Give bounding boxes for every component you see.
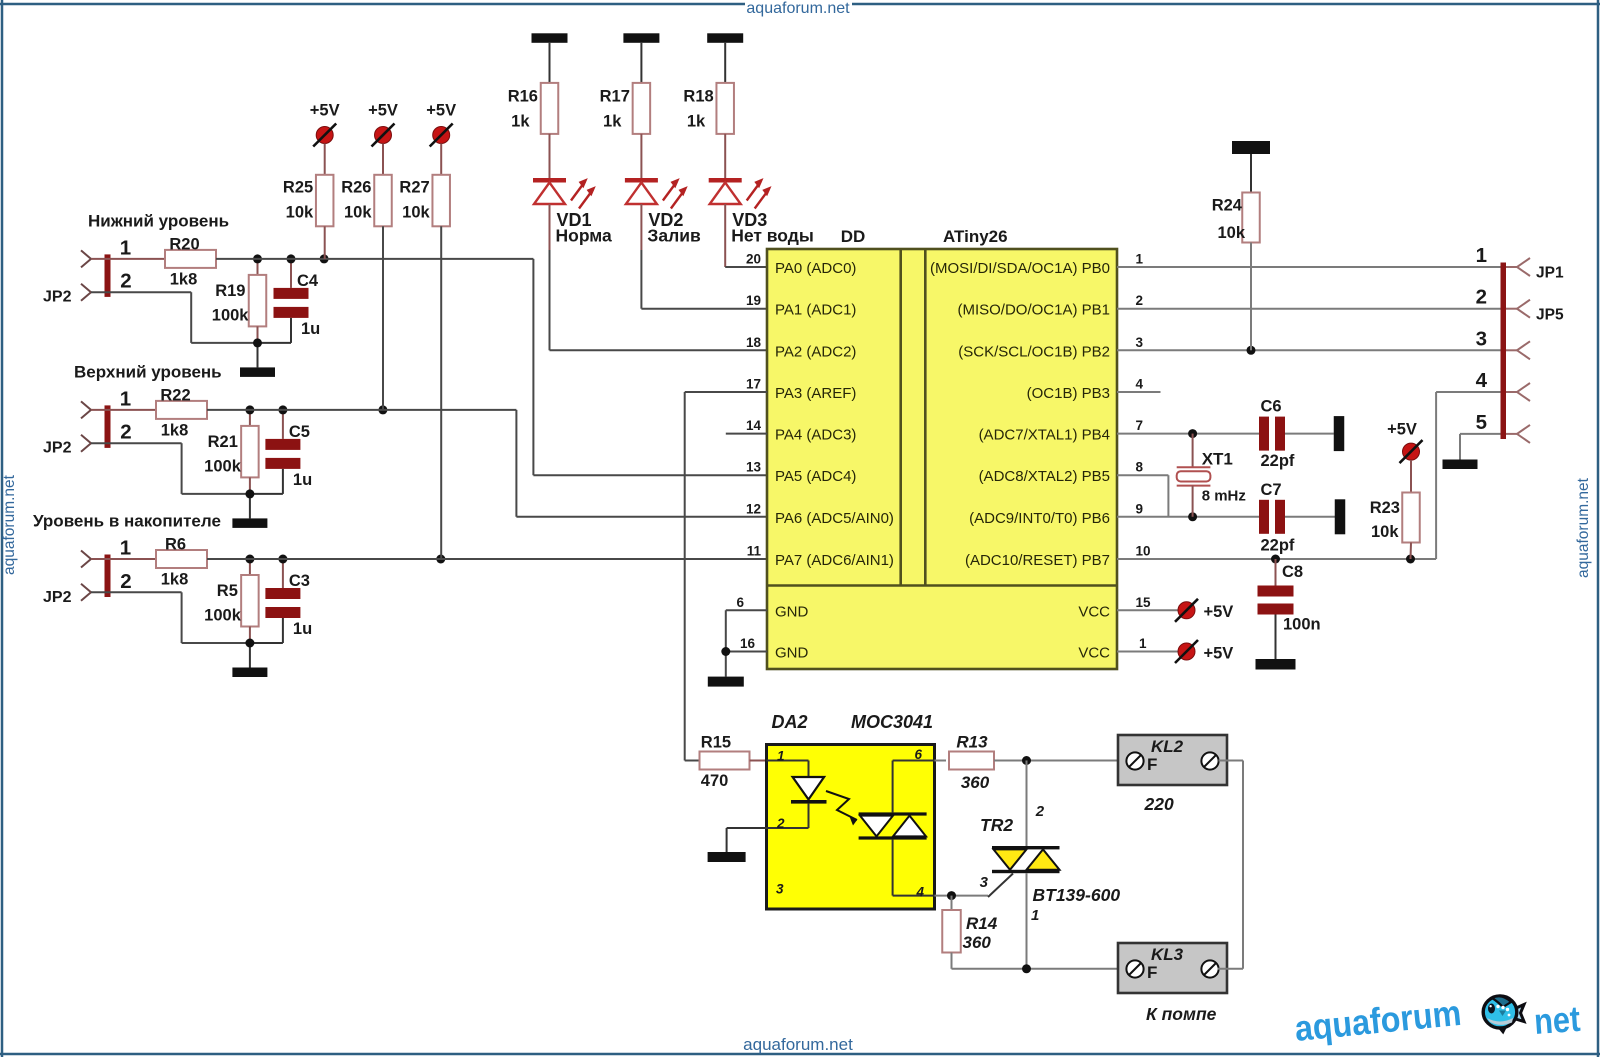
svg-text:22pf: 22pf <box>1261 537 1295 555</box>
svg-text:KL2: KL2 <box>1151 737 1184 756</box>
svg-text:VCC: VCC <box>1078 645 1110 662</box>
svg-text:PA7 (ADC6/AIN1): PA7 (ADC6/AIN1) <box>775 552 894 569</box>
svg-text:R13: R13 <box>956 733 988 752</box>
svg-text:R24: R24 <box>1212 197 1243 215</box>
svg-text:17: 17 <box>746 377 761 392</box>
svg-text:100n: 100n <box>1283 616 1321 634</box>
svg-text:7: 7 <box>1136 418 1144 433</box>
svg-text:11: 11 <box>747 544 762 559</box>
svg-text:aquaforum.net: aquaforum.net <box>1575 477 1592 578</box>
svg-text:TR2: TR2 <box>980 815 1013 835</box>
svg-text:1: 1 <box>1031 907 1039 924</box>
svg-text:100k: 100k <box>204 607 242 625</box>
svg-text:PA4 (ADC3): PA4 (ADC3) <box>775 427 856 444</box>
svg-text:F: F <box>1147 963 1157 982</box>
svg-text:F: F <box>1147 755 1157 774</box>
svg-text:2: 2 <box>120 570 131 593</box>
svg-text:10k: 10k <box>286 204 314 222</box>
svg-text:PA5 (ADC4): PA5 (ADC4) <box>775 468 856 485</box>
svg-text:XT1: XT1 <box>1202 450 1233 469</box>
svg-text:+5V: +5V <box>368 102 398 120</box>
svg-text:(ADC10/RESET) PB7: (ADC10/RESET) PB7 <box>965 552 1110 569</box>
svg-text:1: 1 <box>777 749 785 764</box>
svg-text:9: 9 <box>1136 501 1144 516</box>
svg-text:1k: 1k <box>687 113 706 131</box>
svg-text:JP2: JP2 <box>43 440 72 457</box>
svg-text:R21: R21 <box>208 433 238 451</box>
svg-text:PA2 (ADC2): PA2 (ADC2) <box>775 343 856 360</box>
svg-text:(SCK/SCL/OC1B) PB2: (SCK/SCL/OC1B) PB2 <box>958 343 1110 360</box>
svg-text:16: 16 <box>740 636 756 651</box>
svg-text:3: 3 <box>980 874 989 891</box>
svg-text:1k8: 1k8 <box>170 270 198 288</box>
svg-text:1k: 1k <box>603 113 622 131</box>
svg-text:100k: 100k <box>204 457 242 475</box>
svg-text:R26: R26 <box>341 179 371 197</box>
svg-text:(ADC9/INT0/T0) PB6: (ADC9/INT0/T0) PB6 <box>969 510 1110 527</box>
svg-text:R6: R6 <box>165 536 186 554</box>
svg-text:12: 12 <box>746 501 761 516</box>
svg-text:PA6 (ADC5/AIN0): PA6 (ADC5/AIN0) <box>775 510 894 527</box>
svg-text:JP2: JP2 <box>43 289 72 306</box>
svg-text:Нижний уровень: Нижний уровень <box>88 211 229 230</box>
svg-text:18: 18 <box>746 335 762 350</box>
svg-text:К помпе: К помпе <box>1146 1004 1217 1024</box>
svg-text:22pf: 22pf <box>1261 452 1295 470</box>
svg-text:aquaforum.net: aquaforum.net <box>743 1035 853 1054</box>
svg-text:2: 2 <box>120 421 131 444</box>
svg-text:14: 14 <box>746 418 762 433</box>
svg-text:1: 1 <box>1136 252 1144 267</box>
svg-text:470: 470 <box>701 772 729 790</box>
svg-text:10k: 10k <box>1217 224 1245 242</box>
svg-text:ATiny26: ATiny26 <box>943 227 1008 246</box>
svg-text:1: 1 <box>120 387 131 410</box>
svg-text:1u: 1u <box>301 320 320 338</box>
svg-text:(OC1B) PB3: (OC1B) PB3 <box>1027 385 1110 402</box>
svg-text:4: 4 <box>915 885 924 900</box>
svg-text:2: 2 <box>776 816 785 831</box>
svg-text:1: 1 <box>120 537 131 560</box>
svg-text:PA1 (ADC1): PA1 (ADC1) <box>775 302 856 319</box>
svg-text:R23: R23 <box>1370 499 1400 517</box>
svg-text:JP2: JP2 <box>43 589 72 606</box>
svg-text:VCC: VCC <box>1078 603 1110 620</box>
svg-text:8 mHz: 8 mHz <box>1202 488 1246 505</box>
svg-text:R25: R25 <box>283 179 313 197</box>
svg-text:+5V: +5V <box>426 102 456 120</box>
svg-text:2: 2 <box>1476 286 1487 309</box>
svg-text:3: 3 <box>1476 327 1487 350</box>
svg-text:10: 10 <box>1136 544 1151 559</box>
svg-text:1k8: 1k8 <box>161 421 189 439</box>
svg-text:15: 15 <box>1136 595 1152 610</box>
svg-text:JP1: JP1 <box>1536 265 1564 282</box>
svg-text:100k: 100k <box>212 306 250 324</box>
svg-text:20: 20 <box>746 252 761 267</box>
svg-text:1: 1 <box>1476 244 1487 267</box>
svg-text:Уровень в накопителе: Уровень в накопителе <box>33 512 221 531</box>
svg-text:R16: R16 <box>508 88 538 106</box>
svg-text:4: 4 <box>1136 377 1144 392</box>
svg-text:GND: GND <box>775 603 809 620</box>
svg-text:C8: C8 <box>1282 563 1303 581</box>
svg-text:+5V: +5V <box>310 102 340 120</box>
svg-text:(MOSI/DI/SDA/OC1A) PB0: (MOSI/DI/SDA/OC1A) PB0 <box>930 260 1110 277</box>
svg-text:1k8: 1k8 <box>161 571 189 589</box>
svg-text:MOC3041: MOC3041 <box>851 712 933 732</box>
svg-text:C3: C3 <box>289 572 310 590</box>
svg-text:2: 2 <box>1136 293 1144 308</box>
svg-text:aquaforum.net: aquaforum.net <box>746 0 850 17</box>
svg-text:360: 360 <box>961 773 990 792</box>
svg-text:net: net <box>1533 998 1582 1042</box>
svg-text:(ADC7/XTAL1) PB4: (ADC7/XTAL1) PB4 <box>979 427 1110 444</box>
svg-text:JP5: JP5 <box>1536 307 1564 324</box>
svg-text:1u: 1u <box>293 620 312 638</box>
svg-text:4: 4 <box>1476 369 1488 392</box>
svg-text:KL3: KL3 <box>1151 945 1184 964</box>
svg-text:R14: R14 <box>966 914 998 933</box>
svg-text:+5V: +5V <box>1204 644 1234 662</box>
svg-text:3: 3 <box>1136 335 1144 350</box>
svg-text:R20: R20 <box>169 235 199 253</box>
svg-text:C6: C6 <box>1261 398 1282 416</box>
svg-text:PA0 (ADC0): PA0 (ADC0) <box>775 260 856 277</box>
svg-text:R19: R19 <box>215 282 245 300</box>
svg-text:+5V: +5V <box>1204 603 1234 621</box>
svg-text:1: 1 <box>120 236 131 259</box>
svg-text:BT139-600: BT139-600 <box>1033 885 1121 905</box>
svg-text:5: 5 <box>1476 411 1487 434</box>
svg-text:3: 3 <box>776 882 784 897</box>
svg-text:R5: R5 <box>217 582 238 600</box>
svg-text:10k: 10k <box>1371 523 1399 541</box>
svg-text:10k: 10k <box>402 204 430 222</box>
svg-text:8: 8 <box>1136 460 1144 475</box>
svg-text:R18: R18 <box>683 88 713 106</box>
svg-text:R27: R27 <box>399 179 429 197</box>
svg-text:DD: DD <box>841 227 866 246</box>
svg-text:R15: R15 <box>701 734 731 752</box>
svg-text:Нет воды: Нет воды <box>731 226 814 246</box>
svg-text:360: 360 <box>963 933 992 952</box>
svg-text:19: 19 <box>746 293 761 308</box>
svg-text:2: 2 <box>1035 803 1045 820</box>
svg-text:DA2: DA2 <box>772 712 808 732</box>
svg-text:1: 1 <box>1139 636 1147 651</box>
svg-text:Норма: Норма <box>556 226 613 246</box>
svg-text:C5: C5 <box>289 423 310 441</box>
svg-text:+5V: +5V <box>1387 420 1417 438</box>
svg-text:aquaforum.net: aquaforum.net <box>1 474 18 575</box>
svg-text:13: 13 <box>746 460 762 475</box>
svg-text:PA3 (AREF): PA3 (AREF) <box>775 385 856 402</box>
svg-text:6: 6 <box>736 595 744 610</box>
svg-text:GND: GND <box>775 645 809 662</box>
svg-text:1u: 1u <box>293 471 312 489</box>
svg-text:10k: 10k <box>344 204 372 222</box>
svg-text:6: 6 <box>914 747 922 762</box>
svg-text:1k: 1k <box>511 113 530 131</box>
svg-text:Верхний уровень: Верхний уровень <box>74 362 222 381</box>
svg-text:R17: R17 <box>600 88 630 106</box>
svg-text:(MISO/DO/OC1A) PB1: (MISO/DO/OC1A) PB1 <box>957 302 1110 319</box>
svg-text:220: 220 <box>1144 794 1174 814</box>
svg-text:C7: C7 <box>1261 481 1282 499</box>
svg-text:(ADC8/XTAL2) PB5: (ADC8/XTAL2) PB5 <box>979 468 1110 485</box>
svg-text:2: 2 <box>120 270 131 293</box>
svg-text:Залив: Залив <box>647 226 701 246</box>
svg-text:R22: R22 <box>160 386 190 404</box>
svg-text:C4: C4 <box>297 272 319 290</box>
